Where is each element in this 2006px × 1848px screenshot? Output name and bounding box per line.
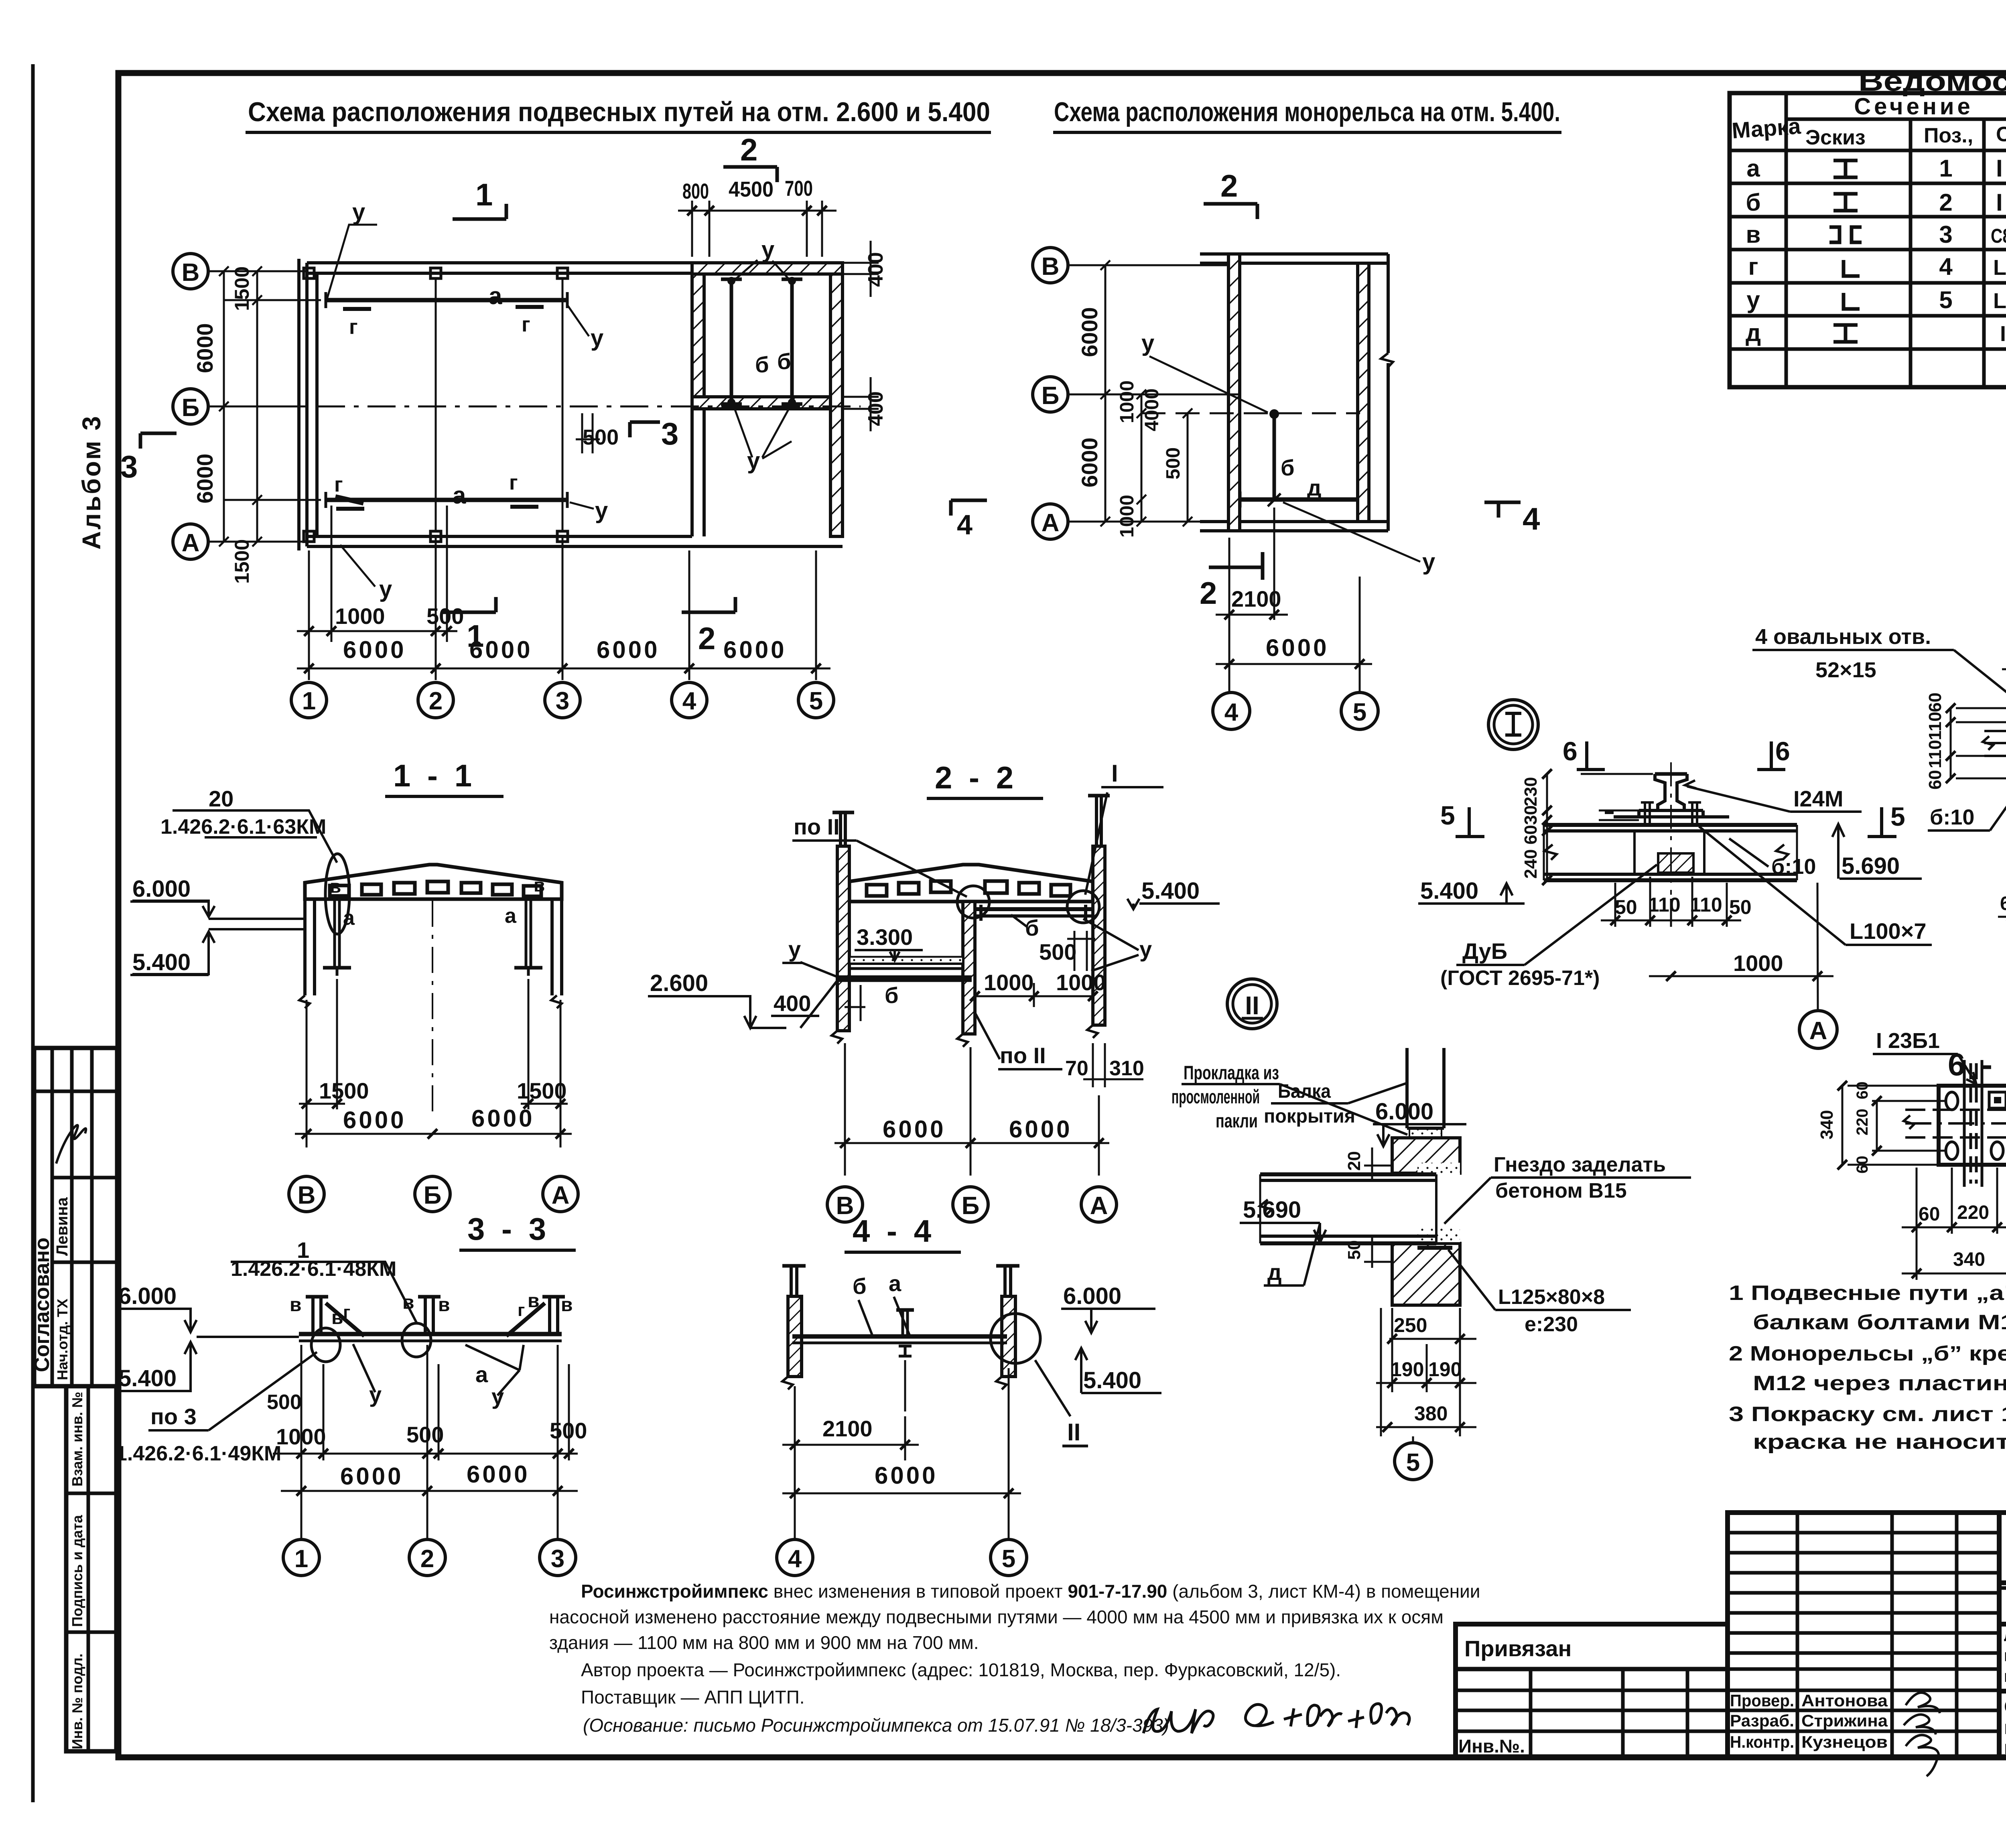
- svg-text:балкам болтами М16 через пласт: балкам болтами М16 через пластины S:14мм…: [1753, 1311, 2006, 1334]
- svg-text:60: 60: [1925, 770, 1945, 790]
- svg-text:500: 500: [583, 425, 619, 449]
- svg-text:Согласовано: Согласовано: [30, 1237, 54, 1372]
- svg-text:ДуБ: ДуБ: [1462, 938, 1507, 964]
- svg-text:20: 20: [209, 786, 233, 811]
- callout ellipse: [325, 854, 349, 934]
- svg-text:4: 4: [1523, 501, 1540, 536]
- svg-text:L125×80×8: L125×80×8: [1498, 1285, 1605, 1309]
- monorail: [1273, 414, 1276, 500]
- left dims: [1837, 1081, 1946, 1170]
- svg-text:у: у: [491, 1384, 504, 1409]
- svg-text:1000: 1000: [1117, 380, 1138, 423]
- svg-text:400: 400: [774, 991, 811, 1016]
- svg-text:4: 4: [682, 687, 696, 715]
- svg-text:190: 190: [1391, 1358, 1424, 1381]
- svg-text:1: 1: [302, 687, 316, 715]
- svg-text:20: 20: [1344, 1151, 1364, 1171]
- svg-text:краска не наносится.: краска не наносится.: [1753, 1430, 2006, 1454]
- svg-text:А: А: [1090, 1192, 1108, 1220]
- svg-text:60: 60: [1854, 1156, 1871, 1174]
- svg-text:у: у: [1746, 286, 1760, 313]
- svg-text:3: 3: [661, 416, 678, 451]
- svg-text:230: 230: [1521, 777, 1541, 806]
- svg-text:2: 2: [420, 1545, 434, 1573]
- svg-text:д: д: [1267, 1259, 1282, 1285]
- svg-text:Стрижина: Стрижина: [1801, 1711, 1888, 1730]
- roof beam: [849, 865, 1093, 902]
- 500 dim near axis3: [576, 413, 600, 453]
- beam: [299, 1332, 562, 1336]
- svg-text:А: А: [1042, 509, 1060, 537]
- svg-text:Б: Б: [182, 394, 200, 422]
- svg-text:б: б: [1746, 189, 1760, 216]
- svg-text:Поставщик — АПП ЦИТП.: Поставщик — АПП ЦИТП.: [581, 1687, 805, 1708]
- svg-text:110: 110: [1690, 894, 1722, 916]
- bottom small dims: [297, 506, 830, 680]
- svg-text:в: в: [331, 1307, 343, 1328]
- svg-text:Гнездо заделать: Гнездо заделать: [1494, 1153, 1666, 1176]
- svg-text:6000: 6000: [343, 1107, 406, 1133]
- svg-text:Альбом 3: Альбом 3: [77, 414, 106, 550]
- svg-text:6.000: 6.000: [1375, 1099, 1433, 1125]
- svg-text:1000: 1000: [1117, 495, 1138, 538]
- svg-text:2100: 2100: [1231, 586, 1281, 611]
- svg-text:60: 60: [1854, 1082, 1871, 1100]
- svg-text:у: у: [747, 448, 760, 474]
- svg-text:6000: 6000: [1077, 437, 1102, 487]
- svg-text:6: 6: [1563, 736, 1578, 766]
- svg-text:6000: 6000: [192, 323, 217, 373]
- svg-text:по II: по II: [1000, 1043, 1046, 1068]
- axis construction lines: [207, 271, 861, 542]
- svg-text:в: в: [330, 876, 341, 897]
- svg-text:I 23Б1: I 23Б1: [2000, 322, 2006, 346]
- svg-text:б: б: [777, 349, 791, 374]
- svg-text:6.000: 6.000: [118, 1283, 177, 1309]
- svg-text:4: 4: [788, 1545, 802, 1573]
- left dim lines: [1100, 260, 1192, 526]
- svg-text:6000: 6000: [597, 636, 660, 663]
- svg-text:6000: 6000: [875, 1462, 938, 1489]
- svg-text:Прокладка из: Прокладка из: [1184, 1062, 1279, 1084]
- svg-text:по II: по II: [794, 814, 840, 839]
- svg-text:в: в: [290, 1294, 302, 1316]
- bottom dims: [834, 1043, 1109, 1176]
- svg-text:6.000: 6.000: [1063, 1283, 1121, 1309]
- svg-text:г: г: [509, 471, 518, 494]
- svg-text:I: I: [1111, 760, 1118, 787]
- dims bottom: [1216, 508, 1372, 692]
- svg-text:в: в: [561, 1294, 573, 1316]
- svg-text:Антонова: Антонова: [1801, 1691, 1888, 1710]
- svg-text:г: г: [349, 315, 358, 339]
- svg-text:(ГОСТ 2695-71*): (ГОСТ 2695-71*): [1440, 967, 1600, 990]
- svg-text:Росинжстройимпекс внес изменен: Росинжстройимпекс внес изменения в типов…: [581, 1581, 1480, 1602]
- svg-text:Кузнецов: Кузнецов: [1801, 1732, 1888, 1751]
- svg-text:Нач.отд. ТХ: Нач.отд. ТХ: [54, 1299, 71, 1380]
- svg-text:500: 500: [267, 1391, 302, 1414]
- svg-text:1 Подвесные пути „а” крепятся: 1 Подвесные пути „а” крепятся к стропиль…: [1729, 1281, 2006, 1305]
- svg-text:800: 800: [682, 179, 709, 203]
- axis lines: [1067, 265, 1360, 522]
- svg-text:питьевых и сточных вод произ-: питьевых и сточных вод произ-: [2004, 1646, 2006, 1665]
- svg-text:2 - 2: 2 - 2: [935, 760, 1017, 795]
- svg-text:Левина: Левина: [53, 1197, 71, 1256]
- svg-text:в: в: [438, 1294, 450, 1316]
- svg-text:1500: 1500: [517, 1078, 567, 1103]
- vertical beam: [1964, 1060, 1982, 1187]
- beams a: [326, 300, 567, 500]
- svg-text:2: 2: [1220, 168, 1238, 203]
- svg-text:4500: 4500: [729, 177, 774, 201]
- beam I36M: [1544, 825, 1797, 880]
- svg-text:г: г: [334, 473, 343, 496]
- svg-text:60: 60: [1521, 825, 1541, 845]
- svg-text:Сечение: Сечение: [1854, 93, 1974, 120]
- svg-text:б: б: [755, 352, 769, 377]
- svg-text:4 овальных отв.: 4 овальных отв.: [1755, 625, 1931, 649]
- section marks: [140, 167, 777, 612]
- columns with hatch: [832, 796, 1110, 1047]
- svg-text:220: 220: [1854, 1109, 1871, 1135]
- a, г, б labels: [334, 282, 791, 509]
- lower: vzam/podpis/inv: [66, 1386, 116, 1751]
- svg-text:1000: 1000: [276, 1424, 326, 1449]
- svg-text:5.400: 5.400: [1083, 1367, 1141, 1393]
- svg-text:I 36м: I 36м: [1996, 155, 2006, 182]
- svg-text:пакли: пакли: [1216, 1111, 1258, 1132]
- signature squiggle in stamp: [56, 1125, 86, 1164]
- svg-text:у: у: [1139, 936, 1152, 962]
- svg-text:50: 50: [1615, 896, 1637, 918]
- 50 110 110 50 dims: [1601, 877, 1741, 927]
- svg-text:Эскиз: Эскиз: [1805, 126, 1866, 149]
- columns: [299, 899, 562, 1008]
- axis circles: [1033, 248, 1378, 729]
- svg-text:340: 340: [1817, 1110, 1837, 1139]
- svg-text:500: 500: [1163, 447, 1184, 479]
- holes: [1946, 1092, 1958, 1110]
- wall: [1392, 1138, 1460, 1173]
- svg-text:а: а: [889, 1271, 901, 1296]
- svg-text:в: в: [402, 1292, 414, 1313]
- svg-text:подвесных путей и: подвесных путей и: [2004, 1717, 2006, 1738]
- svg-text:1.426.2·6.1·63КМ: 1.426.2·6.1·63КМ: [160, 815, 326, 839]
- svg-text:Схема расположения подвесных п: Схема расположения подвесных путей на от…: [248, 97, 990, 127]
- svg-text:5: 5: [809, 687, 823, 715]
- monorail at 5.400: [975, 905, 1093, 921]
- svg-text:В: В: [1042, 253, 1060, 280]
- svg-text:покрытия: покрытия: [1264, 1106, 1355, 1127]
- svg-text:250: 250: [1394, 1314, 1427, 1336]
- svg-text:240: 240: [1521, 849, 1541, 879]
- hangers: [306, 1297, 565, 1336]
- svg-text:1: 1: [467, 618, 484, 654]
- circle detail II: [991, 1314, 1040, 1363]
- handwritten note: [1143, 1704, 1409, 1733]
- svg-text:5: 5: [1890, 802, 1905, 831]
- svg-text:4: 4: [957, 509, 973, 540]
- svg-text:1: 1: [475, 177, 493, 212]
- svg-text:Б: Б: [962, 1192, 980, 1220]
- svg-text:3 - 3: 3 - 3: [467, 1211, 550, 1247]
- y labels + leaders: [352, 199, 774, 602]
- svg-text:1500: 1500: [319, 1078, 369, 1103]
- beam d: [1240, 498, 1358, 502]
- svg-text:Разраб.: Разраб.: [1730, 1711, 1794, 1730]
- svg-text:1500: 1500: [231, 266, 253, 311]
- svg-text:1000: 1000: [1733, 950, 1783, 976]
- svg-text:б: б: [1025, 915, 1039, 940]
- svg-text:5.690: 5.690: [1243, 1197, 1301, 1223]
- svg-text:400: 400: [864, 391, 887, 426]
- svg-text:у: у: [595, 498, 608, 524]
- svg-text:б: б: [885, 983, 899, 1008]
- svg-text:6000: 6000: [471, 1105, 534, 1132]
- svg-text:Провер.: Провер.: [1730, 1691, 1794, 1710]
- svg-text:30: 30: [1521, 805, 1541, 825]
- rods + rails: [323, 899, 542, 976]
- svg-text:3 Покраску см. лист 1. На езд: 3 Покраску см. лист 1. На ездовую поверх…: [1729, 1403, 2006, 1426]
- svg-text:В: В: [836, 1192, 854, 1220]
- svg-text:2.600: 2.600: [650, 970, 708, 996]
- svg-text:д: д: [1746, 319, 1761, 346]
- svg-text:Инв. № подл.: Инв. № подл.: [69, 1653, 85, 1749]
- svg-text:110: 110: [1925, 740, 1945, 768]
- svg-text:М12 через пластины S:10мм.: М12 через пластины S:10мм.: [1753, 1372, 2006, 1395]
- svg-text:50: 50: [1729, 896, 1752, 918]
- signatures in title block: [1904, 1693, 1940, 1776]
- svg-text:Лабораторная для обеззараживан: Лабораторная для обеззараживания: [2004, 1626, 2006, 1645]
- svg-text:II: II: [1245, 991, 1259, 1020]
- svg-text:в: в: [528, 1290, 540, 1312]
- в labels: [290, 1290, 573, 1328]
- svg-text:500: 500: [406, 1422, 444, 1447]
- svg-text:110: 110: [1925, 712, 1945, 740]
- svg-text:В: В: [298, 1182, 316, 1209]
- callout circles: [957, 886, 989, 918]
- svg-text:Б: Б: [1042, 382, 1060, 410]
- svg-text:5: 5: [1939, 286, 1952, 313]
- svg-text:I 24 м: I 24 м: [1996, 189, 2006, 216]
- left extension: Привязан: [1456, 1624, 1728, 1757]
- svg-text:2: 2: [740, 132, 757, 167]
- svg-text:6: 6: [1775, 736, 1790, 766]
- svg-text:б: б: [1281, 455, 1295, 480]
- svg-text:у: у: [1422, 549, 1435, 575]
- svg-text:4 - 4: 4 - 4: [853, 1213, 935, 1249]
- svg-text:3: 3: [551, 1545, 564, 1573]
- hatched walls right part: [692, 263, 843, 274]
- svg-text:52×15: 52×15: [1815, 658, 1876, 682]
- svg-text:6000: 6000: [1266, 634, 1329, 661]
- svg-text:500: 500: [1039, 939, 1076, 965]
- svg-text:А: А: [1809, 1017, 1827, 1045]
- svg-text:340: 340: [1953, 1249, 1985, 1270]
- svg-text:I 23Б1: I 23Б1: [1876, 1029, 1940, 1053]
- rail I24M on beam: [1605, 774, 1729, 817]
- paper edge left line: [31, 64, 35, 1802]
- dims: [273, 1345, 578, 1541]
- svg-text:400: 400: [864, 252, 887, 287]
- svg-text:Схема расположения монорельса: Схема расположения монорельса на отм. 5.…: [1054, 97, 1560, 127]
- svg-text:г: г: [518, 1300, 525, 1320]
- svg-text:6000: 6000: [340, 1463, 403, 1490]
- top dims 800 4500 700: [678, 201, 837, 257]
- left dims: [219, 266, 321, 546]
- axis circles: [173, 254, 834, 718]
- svg-text:А: А: [552, 1182, 570, 1209]
- svg-text:2: 2: [429, 687, 443, 715]
- svg-text:1500: 1500: [231, 539, 253, 584]
- sketch symbols in table: [1829, 160, 1862, 342]
- svg-text:Н.контр.: Н.контр.: [1730, 1732, 1794, 1751]
- svg-text:II: II: [1067, 1419, 1080, 1446]
- center line: [432, 901, 433, 1111]
- walls: [307, 261, 843, 264]
- beam: [792, 1334, 1007, 1339]
- center dash line: [1670, 762, 1672, 895]
- central signature grid: [1728, 1513, 1999, 1757]
- svg-text:70: 70: [1065, 1057, 1088, 1080]
- svg-text:у: у: [788, 936, 801, 962]
- svg-text:а: а: [1746, 155, 1760, 182]
- svg-text:5.400: 5.400: [1420, 878, 1478, 904]
- track at 2.600: [839, 957, 972, 981]
- svg-text:L100×7: L100×7: [1850, 918, 1927, 944]
- svg-text:Марка: Марка: [1731, 113, 1802, 143]
- svg-text:e:230: e:230: [1525, 1313, 1578, 1336]
- svg-text:г: г: [522, 313, 530, 336]
- section marks 6 and 5: [1456, 741, 1896, 837]
- svg-text:у: у: [591, 325, 603, 351]
- svg-text:просмоленной: просмоленной: [1172, 1086, 1260, 1108]
- svg-text:Ведомость элементов: Ведомость элементов: [1858, 65, 2006, 97]
- svg-text:1.426.2·6.1·48КМ: 1.426.2·6.1·48КМ: [231, 1257, 396, 1281]
- svg-text:a: a: [343, 906, 355, 930]
- svg-text:5.690: 5.690: [1842, 853, 1900, 879]
- svg-text:700: 700: [785, 177, 813, 201]
- right part: [1999, 1513, 2006, 1757]
- svg-text:3: 3: [120, 449, 138, 484]
- svg-text:5.400: 5.400: [1141, 878, 1200, 904]
- svg-text:I24М: I24М: [1793, 786, 1844, 811]
- svg-text:2: 2: [1200, 575, 1217, 611]
- svg-text:500: 500: [426, 603, 464, 629]
- svg-text:60: 60: [2000, 893, 2006, 914]
- svg-text:1000: 1000: [335, 603, 385, 629]
- svg-text:6000: 6000: [1077, 307, 1102, 357]
- svg-text:монорельса.: монорельса.: [2004, 1737, 2006, 1759]
- axis circles: [289, 1176, 578, 1212]
- elevation marks left: [132, 901, 304, 974]
- svg-text:310: 310: [1109, 1057, 1144, 1080]
- svg-text:Подпись и дата: Подпись и дата: [69, 1515, 85, 1627]
- svg-text:6.000: 6.000: [132, 876, 191, 902]
- svg-text:(Основание: письмо Росинжстрой: (Основание: письмо Росинжстройимпекса от…: [583, 1715, 1169, 1736]
- svg-text:a: a: [453, 482, 466, 509]
- roof beam: [305, 865, 562, 899]
- svg-text:насосной изменено расстояние м: насосной изменено расстояние между подве…: [549, 1606, 1444, 1627]
- dims 1500: [295, 979, 572, 1147]
- bolts left right of rail: [1641, 802, 1701, 825]
- svg-text:Привязан: Привязан: [1464, 1636, 1572, 1661]
- svg-text:у: у: [1141, 330, 1154, 356]
- svg-text:6000: 6000: [883, 1116, 946, 1143]
- bottom dims: [1376, 1308, 1476, 1436]
- beam d: [1260, 1174, 1436, 1243]
- svg-text:1: 1: [294, 1545, 308, 1573]
- svg-text:2100: 2100: [822, 1416, 873, 1441]
- svg-text:L63×5: L63×5: [1993, 256, 2006, 280]
- svg-text:5: 5: [1002, 1545, 1015, 1573]
- svg-text:б:10: б:10: [1771, 855, 1816, 879]
- svg-text:5.400: 5.400: [132, 949, 191, 975]
- svg-text:Взам. инв. №: Взам. инв. №: [69, 1392, 85, 1487]
- svg-text:бетоном В15: бетоном В15: [1495, 1179, 1627, 1202]
- svg-text:L100×7: L100×7: [1993, 289, 2006, 313]
- svg-text:у: у: [761, 237, 774, 263]
- svg-text:190: 190: [1428, 1358, 1462, 1381]
- svg-text:1.426.2·6.1·49КМ: 1.426.2·6.1·49КМ: [116, 1442, 281, 1465]
- svg-text:Схемы расположения: Схемы расположения: [2004, 1696, 2006, 1718]
- angle under beam: [1417, 1246, 1452, 1250]
- 20 50 dims: [1364, 1147, 1392, 1268]
- walls: [782, 1266, 1019, 1389]
- svg-text:6000: 6000: [467, 1461, 530, 1488]
- svg-text:2: 2: [698, 621, 715, 656]
- svg-text:б: б: [853, 1273, 867, 1299]
- svg-text:в: в: [534, 875, 545, 896]
- right rotated 400 dims: [843, 241, 879, 431]
- svg-text:в: в: [1746, 221, 1761, 248]
- svg-text:1 - 1: 1 - 1: [393, 758, 476, 793]
- svg-text:2 Монорельсы „б” крепятся к ба: 2 Монорельсы „б” крепятся к балкам „д” б…: [1729, 1342, 2006, 1365]
- svg-text:4: 4: [1939, 253, 1953, 280]
- column above: [1407, 1048, 1444, 1128]
- callout 20 / 1.426...: [173, 810, 337, 863]
- dims: [782, 1368, 1021, 1541]
- svg-text:a: a: [505, 904, 517, 928]
- left vertical dims: [1542, 769, 1653, 885]
- bottom dims: [1902, 1168, 2006, 1280]
- svg-text:3.300: 3.300: [857, 924, 913, 950]
- plate: [1939, 1086, 2006, 1165]
- svg-text:380: 380: [1414, 1402, 1448, 1425]
- svg-text:4000: 4000: [1141, 388, 1163, 431]
- svg-text:a: a: [489, 282, 502, 309]
- svg-text:г: г: [1748, 253, 1758, 280]
- svg-text:Поз.,: Поз.,: [1924, 124, 1973, 147]
- svg-text:a: a: [475, 1362, 488, 1387]
- svg-text:2: 2: [1939, 189, 1952, 216]
- svg-text:г: г: [343, 1302, 350, 1322]
- svg-text:500: 500: [550, 1418, 587, 1443]
- section marks 2 top/bottom, 4 left/right: [951, 204, 1521, 580]
- beam dashed lines: [1983, 731, 2006, 756]
- svg-text:5.400: 5.400: [118, 1365, 177, 1391]
- svg-text:д: д: [1307, 475, 1322, 500]
- svg-text:110: 110: [1648, 894, 1681, 916]
- svg-text:60: 60: [1925, 692, 1945, 712]
- svg-text:А: А: [182, 529, 200, 557]
- svg-text:водительностью 50кг хлора в ча: водительностью 50кг хлора в час.: [2004, 1667, 2006, 1686]
- svg-text:по 3: по 3: [150, 1404, 197, 1429]
- svg-text:6000: 6000: [723, 636, 786, 663]
- svg-text:С80×50×4: С80×50×4: [1991, 225, 2006, 247]
- bottom dims: [1998, 895, 2006, 923]
- svg-text:3: 3: [556, 687, 569, 715]
